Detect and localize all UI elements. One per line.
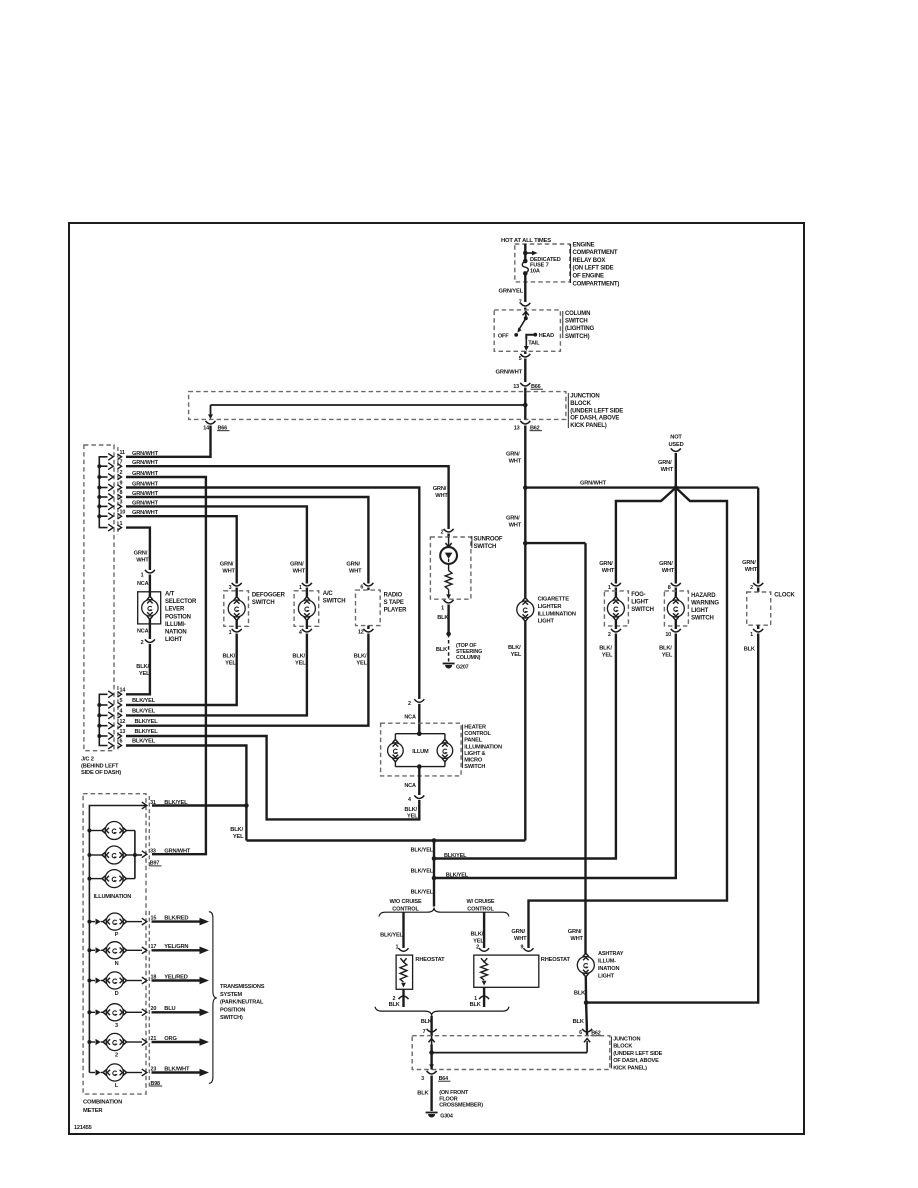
wire BLK/WHT to transmission <box>152 1069 210 1077</box>
svg-text:A/T: A/T <box>165 592 175 598</box>
wire meter internal left bus <box>87 806 146 1073</box>
svg-text:YEL: YEL <box>295 661 306 667</box>
J/C 2 connector box (behind left side of dash) <box>81 445 121 776</box>
svg-text:1: 1 <box>395 945 398 951</box>
svg-text:7: 7 <box>120 459 123 465</box>
svg-text:BLK/: BLK/ <box>508 645 521 651</box>
svg-text:LIGHTER: LIGHTER <box>538 604 562 610</box>
svg-text:CONTROL: CONTROL <box>464 731 491 737</box>
svg-text:TAIL: TAIL <box>528 341 540 347</box>
GRN/WHT bus left of J/C2 <box>97 457 107 528</box>
wire BLK/RED to transmission <box>152 918 210 926</box>
svg-text:GRN/YEL: GRN/YEL <box>499 289 524 295</box>
label w/o cruise + w/ cruise <box>389 899 494 913</box>
brace alternate wiring (bottom) <box>375 1007 509 1016</box>
wire pin 9 to heater control panel <box>126 488 419 700</box>
combination meter box <box>83 794 149 1114</box>
lamp gear indicator 2 <box>89 1033 142 1058</box>
svg-text:WHT: WHT <box>509 523 522 529</box>
svg-text:OFF: OFF <box>498 333 509 339</box>
svg-text:GRN/: GRN/ <box>346 562 360 568</box>
node J/C2 pin 14 BLK/YEL <box>108 688 125 698</box>
node junction GRN/WHT distribution <box>523 480 758 490</box>
svg-text:LIGHT: LIGHT <box>538 619 555 625</box>
svg-text:6: 6 <box>120 739 123 745</box>
svg-text:12: 12 <box>120 719 126 725</box>
wire hazard return <box>434 637 676 878</box>
svg-text:ASHTRAY: ASHTRAY <box>598 951 624 957</box>
svg-text:BLOCK: BLOCK <box>570 401 591 407</box>
wire A/C return to pin 4 <box>126 637 307 715</box>
engine compartment relay box <box>515 242 620 287</box>
lamp cigarette lighter illumination light <box>508 597 576 841</box>
svg-text:(UNDER LEFT SIDE: (UNDER LEFT SIDE <box>570 408 623 414</box>
svg-text:KICK PANEL): KICK PANEL) <box>570 423 606 429</box>
svg-text:COMBINATION: COMBINATION <box>83 1100 122 1106</box>
wire pin 6 to BLK/YEL bus <box>126 746 246 806</box>
label illumination <box>94 894 132 900</box>
svg-text:NCA: NCA <box>404 783 416 789</box>
lamp ashtray illumination light <box>568 543 624 1036</box>
svg-text:FOG-: FOG- <box>631 592 645 598</box>
svg-text:HEATER: HEATER <box>464 725 486 731</box>
switch hazard warning light switch w/ illumination <box>659 561 719 659</box>
sheet number <box>74 1125 92 1131</box>
lamp meter illumination 1 <box>89 822 134 840</box>
svg-text:ILLUMINATION: ILLUMINATION <box>464 744 502 750</box>
svg-text:GRN/: GRN/ <box>568 929 582 935</box>
svg-text:4: 4 <box>120 709 123 715</box>
svg-text:HAZARD: HAZARD <box>691 593 716 599</box>
svg-text:GRN/WHT: GRN/WHT <box>580 480 607 486</box>
wire B66-14 down-left to J/C2 pin 11 <box>126 426 211 457</box>
wire radio return to pin 12 <box>126 637 368 726</box>
svg-text:2: 2 <box>392 996 395 1002</box>
svg-text:WARNING: WARNING <box>691 601 719 607</box>
wire BLU to transmission <box>152 1009 210 1017</box>
svg-text:WHT: WHT <box>435 493 448 499</box>
svg-text:WHT: WHT <box>662 568 675 574</box>
svg-text:BLK: BLK <box>421 1019 432 1025</box>
svg-text:WHT: WHT <box>136 558 149 564</box>
node meter pin 21 ORG <box>142 1036 178 1046</box>
svg-text:YEL: YEL <box>662 653 673 659</box>
svg-text:MICRO: MICRO <box>464 758 483 764</box>
svg-text:ILLUMINATION: ILLUMINATION <box>94 894 132 900</box>
wire defogger return to pin 5 <box>126 637 237 705</box>
svg-text:GRN/: GRN/ <box>742 560 756 566</box>
svg-text:10: 10 <box>120 509 126 515</box>
svg-text:WHT: WHT <box>293 569 306 575</box>
svg-text:12: 12 <box>358 630 364 636</box>
svg-text:121455: 121455 <box>74 1125 92 1131</box>
wire clock return <box>586 637 758 1003</box>
svg-text:YEL: YEL <box>407 814 418 820</box>
svg-text:S TAPE: S TAPE <box>384 600 404 606</box>
svg-text:HOT AT ALL TIMES: HOT AT ALL TIMES <box>501 238 551 244</box>
svg-text:BLK/: BLK/ <box>659 646 672 652</box>
heater control panel illumination light & micro switch <box>381 699 502 819</box>
wire fuse to column switch, GRN/YEL <box>499 273 526 302</box>
svg-text:ILLUMI-: ILLUMI- <box>165 622 186 628</box>
svg-text:WHT: WHT <box>570 936 583 942</box>
node NOT USED <box>658 435 684 488</box>
svg-text:BLK: BLK <box>574 990 586 996</box>
svg-text:A/C: A/C <box>323 591 334 597</box>
svg-text:14: 14 <box>120 688 126 694</box>
svg-text:COLUMN): COLUMN) <box>456 655 481 661</box>
lamp gear indicator N <box>89 942 142 967</box>
wire YEL/GRN to transmission <box>152 947 210 955</box>
svg-text:SWITCH: SWITCH <box>474 544 497 550</box>
svg-text:BLK: BLK <box>573 1019 585 1025</box>
svg-text:CLOCK: CLOCK <box>774 593 795 599</box>
svg-text:BLK/: BLK/ <box>223 654 236 660</box>
node J/C2 pin 9 GRN/WHT <box>108 481 158 491</box>
svg-text:J/C 2: J/C 2 <box>81 757 94 763</box>
lamp A/T selector lever position illumination light <box>134 551 197 678</box>
svg-text:BLK: BLK <box>417 1091 429 1097</box>
svg-text:9: 9 <box>120 481 123 487</box>
svg-text:LIGHT: LIGHT <box>598 974 615 980</box>
lamp gear indicator 3 <box>89 1004 142 1029</box>
pin 7 connector <box>519 300 531 311</box>
svg-text:GRN/: GRN/ <box>290 562 304 568</box>
svg-text:(LIGHTING: (LIGHTING <box>565 326 595 332</box>
svg-text:2: 2 <box>408 701 411 707</box>
svg-text:2: 2 <box>115 1053 118 1059</box>
node J/C2 pin 1 GRN/WHT <box>108 521 122 531</box>
svg-text:OF DASH, ABOVE: OF DASH, ABOVE <box>570 416 619 422</box>
svg-text:SWITCH: SWITCH <box>252 600 275 606</box>
node B98 <box>150 1081 162 1087</box>
svg-text:8: 8 <box>120 490 123 496</box>
node J/C2 pin 5 BLK/YEL <box>108 698 156 708</box>
ground sunroof switch G207 <box>436 600 482 671</box>
svg-text:(BEHIND LEFT: (BEHIND LEFT <box>81 763 119 769</box>
svg-text:GRN/WHT: GRN/WHT <box>496 370 523 376</box>
svg-text:9: 9 <box>520 945 523 951</box>
svg-text:3: 3 <box>421 1076 424 1082</box>
svg-text:SYSTEM: SYSTEM <box>220 992 242 998</box>
svg-text:USED: USED <box>668 442 683 448</box>
svg-text:GRN/: GRN/ <box>433 486 447 492</box>
svg-text:5: 5 <box>519 356 522 362</box>
wire pin31 to BLK/YEL junction <box>152 803 249 808</box>
svg-text:YEL: YEL <box>473 939 484 945</box>
node junction to ashtray feed <box>523 541 586 546</box>
switch defogger switch w/ illumination lamp <box>220 562 286 667</box>
svg-text:DEFOGGER: DEFOGGER <box>252 593 286 599</box>
radio s tape player box <box>346 562 407 667</box>
lamp meter illumination 3 <box>89 870 134 888</box>
svg-text:POSTION: POSTION <box>165 614 191 620</box>
svg-text:P: P <box>115 932 119 938</box>
node J/C2 pin 8 GRN/WHT <box>108 490 158 500</box>
svg-text:1: 1 <box>750 632 753 638</box>
wire pin 10 to defogger switch <box>126 516 237 583</box>
svg-text:3: 3 <box>229 585 232 591</box>
svg-text:WHT: WHT <box>222 569 235 575</box>
svg-text:BLK/YEL: BLK/YEL <box>135 719 159 725</box>
svg-text:TRANSMISSIONS: TRANSMISSIONS <box>220 984 265 990</box>
svg-text:COMPARTMENT): COMPARTMENT) <box>573 281 620 287</box>
svg-text:YEL: YEL <box>356 661 367 667</box>
svg-text:INATION: INATION <box>598 966 619 972</box>
svg-text:7: 7 <box>423 1029 426 1035</box>
svg-text:2: 2 <box>608 632 611 638</box>
svg-text:YEL: YEL <box>233 834 244 840</box>
svg-text:LIGHT: LIGHT <box>165 637 183 643</box>
svg-text:2: 2 <box>441 530 444 536</box>
node meter pin 17 YEL/GRN <box>142 944 189 954</box>
svg-text:3: 3 <box>120 500 123 506</box>
svg-text:33: 33 <box>150 848 156 854</box>
svg-text:ILLUM: ILLUM <box>412 749 429 755</box>
node J/C2 pin 7 GRN/WHT <box>108 459 158 469</box>
svg-text:LIGHT: LIGHT <box>691 608 709 614</box>
wire inside junction block <box>208 392 528 419</box>
junction block B62/B64 (bottom) <box>412 1029 662 1072</box>
svg-text:(PARK/NEUTRAL: (PARK/NEUTRAL <box>220 1000 264 1006</box>
rheostat (w/ cruise control) <box>470 912 571 1008</box>
svg-text:NCA: NCA <box>404 715 416 721</box>
brace transmission system <box>209 912 265 1084</box>
rheostat (w/o cruise control) <box>380 912 445 1008</box>
svg-text:GRN/: GRN/ <box>659 561 673 567</box>
wire YEL/RED to transmission <box>152 977 210 985</box>
BLK/YEL bus left of J/C2 <box>97 694 107 745</box>
wire cigarette return to meter pin31 junction <box>230 806 525 841</box>
svg-text:ENGINE: ENGINE <box>573 242 595 248</box>
node meter pin 31 BLK/YEL B97 <box>142 800 188 809</box>
svg-text:3: 3 <box>115 1023 118 1029</box>
svg-text:RADIO: RADIO <box>384 593 403 599</box>
node meter pin 23 BLK/WHT <box>142 1066 190 1076</box>
svg-text:ILLUM-: ILLUM- <box>598 959 616 965</box>
svg-text:RELAY BOX: RELAY BOX <box>573 258 606 264</box>
svg-text:FLOOR: FLOOR <box>439 1096 458 1102</box>
wire rheostat common to junction block pin 7 <box>421 1016 432 1036</box>
svg-text:1: 1 <box>299 585 302 591</box>
node meter pin 15 BLK/RED <box>142 915 189 925</box>
svg-text:BLK/YEL: BLK/YEL <box>135 729 159 735</box>
svg-text:BLK/: BLK/ <box>354 654 367 660</box>
svg-text:BLK: BLK <box>437 615 449 621</box>
svg-text:WHT: WHT <box>514 936 527 942</box>
lamp gear indicator P <box>89 913 142 938</box>
svg-text:2: 2 <box>750 585 753 591</box>
svg-text:13: 13 <box>120 729 126 735</box>
svg-text:BLK: BLK <box>744 646 756 652</box>
svg-text:1: 1 <box>608 585 611 591</box>
svg-text:BLK/: BLK/ <box>404 807 417 813</box>
svg-text:2: 2 <box>476 945 479 951</box>
svg-text:CONTROL: CONTROL <box>392 907 419 913</box>
pin 5 connector <box>519 351 531 382</box>
svg-text:BLK: BLK <box>470 1002 481 1008</box>
svg-text:10A: 10A <box>530 269 540 275</box>
svg-text:11: 11 <box>120 450 126 456</box>
connector B64 pin 3 <box>421 1071 450 1082</box>
svg-text:BLK/YEL: BLK/YEL <box>380 933 403 939</box>
svg-text:RHEOSTAT: RHEOSTAT <box>541 957 571 963</box>
svg-text:COLUMN: COLUMN <box>565 311 590 317</box>
svg-text:D: D <box>115 991 119 997</box>
svg-text:NATION: NATION <box>165 630 186 636</box>
clock box <box>742 560 795 652</box>
svg-text:BLK/YEL: BLK/YEL <box>446 873 469 879</box>
svg-text:GRN/: GRN/ <box>220 562 234 568</box>
svg-text:JUNCTION: JUNCTION <box>613 1036 640 1042</box>
switch sunroof switch w/ illumination <box>430 486 502 599</box>
svg-text:6: 6 <box>360 585 363 591</box>
svg-text:COMPARTMENT: COMPARTMENT <box>573 250 618 256</box>
svg-text:BLK/YEL: BLK/YEL <box>411 890 434 896</box>
svg-text:BLK: BLK <box>389 1002 400 1008</box>
svg-text:5: 5 <box>120 698 123 704</box>
svg-text:GRN/: GRN/ <box>658 460 672 466</box>
lamp meter illumination 2 <box>89 846 134 864</box>
svg-text:WHT: WHT <box>745 567 758 573</box>
node J/C2 pin 13 BLK/YEL <box>108 729 158 739</box>
svg-text:SWITCH): SWITCH) <box>565 334 590 340</box>
wire meter illumination right bus <box>133 831 142 879</box>
svg-text:1: 1 <box>141 573 144 579</box>
svg-text:1: 1 <box>441 606 444 612</box>
svg-text:RHEOSTAT: RHEOSTAT <box>415 957 445 963</box>
svg-text:LEVER: LEVER <box>165 607 185 613</box>
svg-text:SWITCH: SWITCH <box>631 607 654 613</box>
wire junction diagonals to fog / right branch <box>529 485 728 948</box>
node J/C2 pin 3 GRN/WHT <box>108 500 158 510</box>
svg-text:BLK/: BLK/ <box>136 664 149 670</box>
svg-text:G304: G304 <box>440 1114 453 1120</box>
svg-text:BLK/: BLK/ <box>599 646 612 652</box>
switch fog light switch w/ illumination <box>599 561 654 659</box>
switch A/C switch w/ illumination lamp <box>290 562 345 667</box>
svg-text:(ON LEFT SIDE: (ON LEFT SIDE <box>573 266 614 272</box>
svg-text:PLAYER: PLAYER <box>384 608 408 614</box>
wire A/T selector return to pin 14 <box>126 648 150 694</box>
svg-text:1: 1 <box>229 630 232 636</box>
svg-text:SWITCH: SWITCH <box>565 319 588 325</box>
svg-text:CROSSMEMBER): CROSSMEMBER) <box>439 1103 483 1109</box>
wire GRN/WHT main feed below junction block <box>506 426 525 598</box>
svg-text:(UNDER LEFT SIDE: (UNDER LEFT SIDE <box>613 1051 662 1057</box>
svg-text:ILLUMINATION: ILLUMINATION <box>538 611 576 617</box>
node J/C2 pin 12 BLK/YEL <box>108 719 158 729</box>
wire clock feed <box>757 488 759 584</box>
svg-text:CIGARETTE: CIGARETTE <box>538 597 570 603</box>
svg-text:BLK/: BLK/ <box>230 827 243 833</box>
svg-text:BLK/YEL: BLK/YEL <box>411 848 434 854</box>
svg-text:METER: METER <box>83 1108 103 1114</box>
node meter pin 33 GRN/WHT B97 <box>142 848 191 866</box>
svg-text:KICK PANEL): KICK PANEL) <box>613 1066 647 1072</box>
svg-text:1: 1 <box>120 521 123 527</box>
node HOT AT ALL TIMES <box>501 238 551 244</box>
node meter pin 20 BLU <box>142 1006 176 1016</box>
wire pin 3 to A/C switch <box>126 506 307 583</box>
svg-text:BLK/: BLK/ <box>292 654 305 660</box>
svg-text:OF DASH, ABOVE: OF DASH, ABOVE <box>613 1058 659 1064</box>
svg-text:BLK/YEL: BLK/YEL <box>132 739 156 745</box>
svg-text:N: N <box>115 961 119 967</box>
wire hot feed into fuse <box>523 244 538 261</box>
svg-text:BLOCK: BLOCK <box>613 1044 632 1050</box>
brace alternate wiring (top) <box>379 908 509 917</box>
svg-text:WHT: WHT <box>602 568 615 574</box>
svg-text:13: 13 <box>513 384 519 390</box>
node meter pin 18 YEL/RED <box>142 974 188 984</box>
svg-text:WHT: WHT <box>661 467 674 473</box>
svg-text:HEAD: HEAD <box>539 333 554 339</box>
node J/C2 pin 2 GRN/WHT <box>108 470 158 480</box>
node J/C2 pin 6 BLK/YEL <box>108 739 156 749</box>
wire heater return to pin 13 <box>126 736 419 819</box>
connector B62 pin 13 (top) <box>514 421 542 432</box>
svg-text:(ON FRONT: (ON FRONT <box>439 1090 469 1096</box>
ground G304 on front floor crossmember <box>417 1076 483 1120</box>
svg-text:OF ENGINE: OF ENGINE <box>573 274 605 280</box>
svg-text:NOT: NOT <box>670 435 682 441</box>
svg-text:WHT: WHT <box>349 569 362 575</box>
wire ORG to transmission <box>152 1038 210 1046</box>
svg-text:SIDE OF DASH): SIDE OF DASH) <box>81 770 121 776</box>
svg-text:GRN/: GRN/ <box>506 516 520 522</box>
svg-text:WHT: WHT <box>509 459 522 465</box>
svg-text:2: 2 <box>141 640 144 646</box>
svg-text:8: 8 <box>668 585 671 591</box>
svg-text:GRN/: GRN/ <box>599 561 613 567</box>
svg-text:YEL: YEL <box>602 653 613 659</box>
fuse DEDICATED FUSE 7 10A <box>522 257 560 276</box>
lamp gear indicator D <box>89 972 142 997</box>
svg-text:LIGHT: LIGHT <box>631 600 649 606</box>
lamp gear indicator L <box>89 1064 142 1089</box>
svg-text:BLK/YEL: BLK/YEL <box>444 853 467 859</box>
svg-text:GRN/: GRN/ <box>506 452 520 458</box>
svg-text:SWITCH: SWITCH <box>464 764 485 770</box>
svg-text:SWITCH: SWITCH <box>323 599 346 605</box>
svg-text:13: 13 <box>514 426 520 432</box>
svg-text:GRN/: GRN/ <box>511 929 525 935</box>
svg-text:POSITION: POSITION <box>220 1007 245 1013</box>
svg-text:SUNROOF: SUNROOF <box>474 537 503 543</box>
svg-text:JUNCTION: JUNCTION <box>570 394 599 400</box>
svg-text:BLK/YEL: BLK/YEL <box>411 869 434 875</box>
svg-text:GRN/: GRN/ <box>134 551 148 557</box>
svg-text:PANEL: PANEL <box>464 738 482 744</box>
svg-text:GRN/WHT: GRN/WHT <box>132 451 159 457</box>
svg-text:YEL: YEL <box>225 661 236 667</box>
svg-text:W/O CRUISE: W/O CRUISE <box>389 899 422 905</box>
svg-text:LIGHT &: LIGHT & <box>464 751 485 757</box>
svg-text:1: 1 <box>474 996 477 1002</box>
svg-text:YEL: YEL <box>511 652 522 658</box>
svg-text:4: 4 <box>408 797 411 803</box>
svg-text:W/ CRUISE: W/ CRUISE <box>467 899 495 905</box>
svg-text:BLK: BLK <box>436 647 448 653</box>
wire pin 7 to sunroof switch <box>126 466 449 529</box>
junction block B66/B62 (top) <box>189 392 624 430</box>
column switch (lighting switch) <box>494 310 594 351</box>
wire pin 8 to radio <box>126 497 368 584</box>
svg-text:BLK/YEL: BLK/YEL <box>132 698 156 704</box>
wire inside bottom junction block <box>429 1036 591 1070</box>
svg-text:NCA: NCA <box>137 629 149 635</box>
